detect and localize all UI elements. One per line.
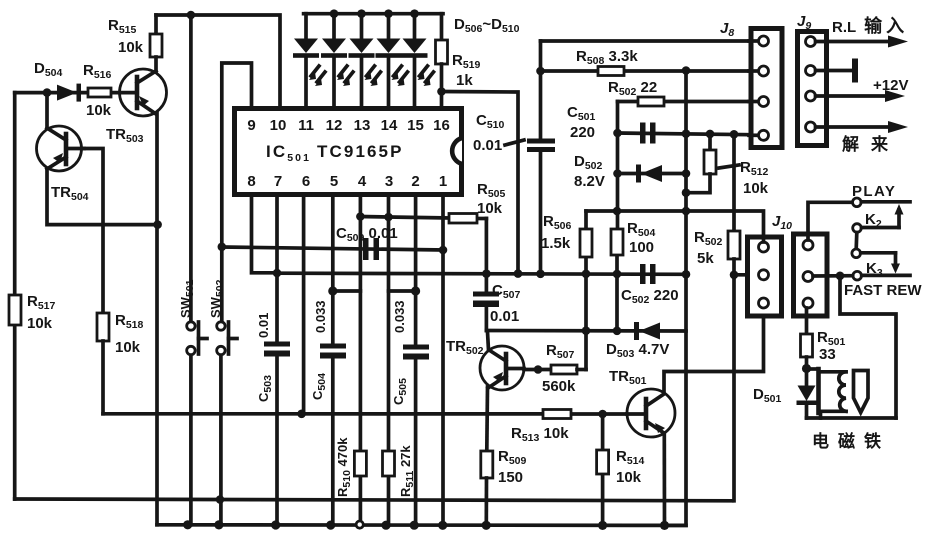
resistor R513 [543,410,571,419]
wire: R519 node right and down to long line [442,92,519,274]
capacitor C510 [527,139,555,153]
svg-text:电磁铁: 电磁铁 [812,431,890,451]
svg-text:0.033: 0.033 [392,300,407,333]
wire: R519 column from LED bus [440,14,444,40]
junction: R506 column on long line [582,270,591,279]
diode D503 [634,322,660,340]
connector J10-B [794,234,828,316]
wire: TR504 base right then down to R518 [84,149,103,314]
svg-text:R508 3.3k: R508 3.3k [576,48,638,67]
svg-text:+12V: +12V [873,77,908,94]
resistor R517 [9,295,21,325]
wire: pin5 column down through C504 to lower bus [331,291,335,525]
svg-text:4: 4 [358,173,367,190]
resistor R505 [449,214,477,224]
svg-text:0.01: 0.01 [473,137,502,154]
wire: pin2 column down through C505 to lower bus [414,291,418,525]
wire: C510/J8 feed line [541,39,759,43]
wire: C510 column [539,41,543,274]
connector J9 [798,32,827,146]
wire: J9 pin4 output with arrow [816,121,909,133]
connector J10-A [748,237,782,316]
junction: that column on long line [514,269,523,278]
wire: pin1 column down to lower bus [441,195,445,525]
junction: R514 tap on R513 line [598,410,607,419]
wire: stub to J10-A pin2 [734,273,758,277]
resistor R509 [481,451,493,478]
wire: left rail (TR503 base net) down past R517 to lower bus [13,93,17,499]
junction: x686 rail on R508 line [682,66,691,75]
junction: R508 line start on C510 column [536,67,545,76]
wire: LED anode bus [304,12,443,16]
svg-text:解来: 解来 [842,134,900,154]
wire: pin6 column down to R513 line [302,195,306,414]
junction: FAST/REW drop node [836,272,845,281]
wire: K2 actuator with up arrow [895,204,904,228]
svg-text:10k: 10k [743,180,769,197]
svg-text:10k: 10k [477,200,503,217]
resistor R502 (5k) [728,231,740,259]
LED D507 [321,14,353,108]
junction: C509 right end on pin1 column [439,246,448,255]
wire: R513 line (R518 bottom across to TR501 base) [103,412,627,416]
wire: x686 rail from R508 line down to lower bus corner [665,70,687,525]
resistor R506 [580,229,592,257]
svg-text:0.01: 0.01 [256,313,271,338]
leader: R512 label [719,165,739,168]
junction: R504 top on y211 line [613,207,622,216]
svg-text:FAST REW: FAST REW [844,282,922,299]
wire: c2 arm to actuator [862,226,900,230]
leader: C510 value to plates [505,140,524,145]
wire: R519 bottom to IC pin16 [440,64,444,108]
junction: pin6 column on R513 line [297,410,306,419]
resistor R501 [801,334,813,357]
junction: x686 on C501 line [682,129,691,138]
junction: R504 column on long line [613,270,622,279]
transistor TR503 [120,69,167,116]
switch K3 contact c3 [852,249,861,258]
wire: pin3 column down through R511 to lower bus [387,195,391,525]
electromagnet plunger [854,371,869,413]
svg-text:13: 13 [354,117,371,134]
wire: C509 line from SW502 column to pin1 column [222,247,443,250]
wire: R505 right end down through C507 to lower horizontal line [485,219,489,331]
junction: R504 column on C507/D503 line [613,327,622,336]
wire: J10-B pin1 up and right to PLAY contact [808,202,852,240]
svg-text:D503 4.7V: D503 4.7V [606,341,669,360]
wire: top-left supply segment (R515 to pin10) [156,15,280,108]
wire: jumper pin2 node to pin3 column [389,289,416,293]
wire: drop to electromagnet right side [840,276,896,418]
wire: K3 actuator with down arrow [891,253,900,274]
capacitor C502 on long line [640,264,656,284]
svg-text:10: 10 [270,117,287,134]
junction: R505/C507 column on long line [482,269,491,278]
wire: J9 pin3 output with arrow (+12V) [816,90,906,102]
diode D502 zener [636,165,662,183]
wire: R501 bottom to coil node [805,357,809,386]
wire: R507 right end to R506 column [577,368,586,372]
wire: SW501 bottom to ground bus [189,355,193,525]
junction: R519 bottom node [437,87,446,96]
svg-text:10k: 10k [115,339,141,356]
junction: TR502 base node [534,365,543,374]
wire: long horizontal line to x686 column [277,273,686,274]
wire: R502-5k column [732,134,736,231]
resistor R510 [354,451,366,476]
wire: J9 pin1 output with arrow (R.L input) [816,36,909,48]
svg-text:10k: 10k [616,469,642,486]
svg-text:5: 5 [330,173,338,190]
svg-text:150: 150 [498,469,523,486]
wire: pins 4-3-1 line with R505 [360,217,486,219]
resistor R514 [597,450,609,474]
svg-text:16: 16 [433,117,450,134]
wire: TR502 base to R507 [524,368,551,372]
svg-text:6: 6 [302,173,310,190]
diode D504 [57,84,81,102]
junction: J10 pin2 stub node [730,271,739,280]
LED D508 [349,14,381,108]
svg-text:PLAY: PLAY [852,183,896,200]
wire: blade c2-c3 [854,233,858,250]
wire: J10-B pin2 to c4 [813,274,853,278]
wire: D502 line [618,172,687,176]
wire: R502-22 line to J8 pin3 [618,100,759,104]
capacitor C504 [320,344,346,359]
wire: TR503 emitter column down to ground bus [155,113,159,525]
svg-text:0.033: 0.033 [313,300,328,333]
svg-text:5k: 5k [697,250,714,267]
svg-text:7: 7 [274,173,282,190]
junction: lower bus dots [183,520,669,530]
wire: TR503 base line with D504/R516 [15,91,121,95]
junction: R512 bottom on x686 rail [682,188,691,197]
svg-text:1k: 1k [456,72,473,89]
wire: TR504 emitter down and right to TR503 emitter column [47,169,158,225]
svg-text:10k: 10k [27,315,53,332]
junction: pin7 column joins long line [273,269,282,278]
wire: pin8 down and right joining pin7 column (long line start) [252,195,278,273]
IC pin numbers top row [247,117,450,134]
LED D506 [293,14,325,108]
wire: TR504 collector up to base line [45,93,49,128]
wire: lower ground bus [157,523,686,527]
wire: TR501 emitter to lower bus [662,433,666,525]
wire: c4 arm right [862,274,910,278]
svg-text:220: 220 [570,124,595,141]
wire: TR502 emitter down to R509 [485,387,489,451]
IC pin numbers bottom row [247,173,447,190]
wire: SW501 column from top rail down to switch [189,15,193,322]
resistor R502 (22) [638,97,664,106]
LED D509 [376,14,408,108]
junction: R506 column on C507/D503 line [582,326,591,335]
IC U501 TC9165P body [235,109,463,195]
wire: c1 arm to right [861,200,910,204]
svg-text:2: 2 [411,173,419,190]
capacitor C503 [264,342,290,357]
svg-text:R.L输入: R.L输入 [832,15,908,36]
svg-text:1.5k: 1.5k [541,235,571,252]
junction: R502-5k top on C501 line [730,130,739,139]
svg-text:8: 8 [247,173,255,190]
resistor R512 [686,134,716,193]
junction: long line end at x686 column [682,270,691,279]
svg-text:100: 100 [629,239,654,256]
wire: C501 line to J8 pin4 [618,133,759,135]
resistor R511 [383,451,395,476]
wire: R509 bottom to lower bus [484,478,488,525]
junction: D502 line left end [613,169,622,178]
capacitor C501 [640,123,656,144]
svg-text:14: 14 [381,117,398,134]
wire: R506/R507 column (y211 line down to R507) [584,211,588,370]
svg-text:0.01: 0.01 [490,308,519,325]
junction: R512 top on C501 line [706,130,715,139]
wire: supply line y211 from R506 top to J10 pin [586,211,764,242]
diode D501 [797,386,817,419]
resistor R519 [436,40,448,64]
svg-text:12: 12 [326,117,343,134]
resistor R507 [551,365,577,374]
resistor R518 [97,313,109,341]
wire: upper ground bus from left rail to R502-5k column [15,499,732,501]
junction: x686 column on y211 line [682,207,691,216]
svg-text:9: 9 [247,117,255,134]
junction: C501 line left end [613,129,622,138]
switch SW501 [187,322,207,355]
electromagnet coil [819,369,847,418]
switch SW502 [217,322,237,355]
wire: pin9 loop around IC left side to SW502 column [222,63,252,322]
junction: pin5 jumper node [328,286,337,295]
wire: TR502 collector up to C507 line [488,332,489,350]
resistor R504 [611,229,623,255]
transistor TR504 [37,126,85,171]
wire: R514 column [601,414,605,525]
wire: pin4 column down through R510 to lower bus [359,195,363,522]
junction: TR504 collector tap on base line [43,88,52,97]
svg-text:8.2V: 8.2V [574,173,605,190]
wire: R518 bottom to horizontal line [101,341,105,414]
wire: SW502 bottom to buses [219,355,223,525]
wire: R515 column top [154,15,158,34]
svg-text:C502 220: C502 220 [621,287,679,306]
capacitor C509 [363,238,379,260]
svg-text:33: 33 [819,346,836,363]
resistor R516 [88,88,111,97]
wire: R504/R502-22 column [615,102,619,331]
resistor R515 [150,34,162,57]
switch contact c4 (FAST REW line) [853,271,862,280]
connector J8 [749,29,782,148]
wire: pin7 column down through C503 to lower bus [275,195,279,525]
junction: pin3 on 431 line [384,213,393,222]
svg-text:560k: 560k [542,378,576,395]
junction: pin4 on 431 line [356,212,365,221]
svg-text:R513 10k: R513 10k [511,425,569,444]
junction: SW502 column on upper bus [216,495,225,504]
LED D510 [402,14,434,108]
wire: c3 arm to right [861,251,896,255]
wire: C507/D503 horizontal line [486,329,686,333]
wire: electromagnet bottom [807,416,897,420]
junction: coil node [802,364,811,373]
svg-text:C509 0.01: C509 0.01 [336,225,398,244]
wire: R515 bottom to TR503 collector [154,57,158,72]
resistor R508 [598,67,624,76]
wire: J10-B pin3 down to R501 [805,308,809,334]
switch K2 contact c1 (PLAY) [853,198,862,207]
capacitor C507 [473,292,499,308]
svg-text:1: 1 [439,173,447,190]
transistor TR502 [480,346,524,390]
transistor TR501 [627,389,675,437]
junction: x686 on D502 line [682,169,691,178]
junction: C510 column on long line [536,270,545,279]
capacitor C505 [403,345,429,360]
svg-text:11: 11 [298,117,314,134]
junction: TR504 emitter to TR503 emitter column [153,220,162,229]
junction: SW501 column on top segment [187,11,196,20]
svg-text:15: 15 [407,117,424,134]
switch K2 contact c2 [853,224,862,233]
svg-text:3: 3 [385,173,393,190]
junction: LED bus dots [330,9,419,18]
junction: pin2 jumper node [411,286,420,295]
wire: J9 pin2 stub with plug bar [816,59,859,83]
svg-text:IC501TC9165P: IC501TC9165P [266,142,404,164]
wire: pin2 column down to jumper node [414,195,418,291]
wire: TR501 collector to J10-A pin3 [664,308,764,393]
wire: pin5 column down to jumper node [331,195,335,291]
wire: R502-5k column lower part to upper bus [732,259,736,501]
wire: jumper pin5 node to pin4 column [333,289,361,293]
wire: R508 line to J8 pin2 [541,69,759,73]
svg-text:10k: 10k [86,102,112,119]
junction: C509 left end on SW502 column [218,243,227,252]
wire: coil node to coil bar [807,367,819,371]
svg-text:10k: 10k [118,39,144,56]
